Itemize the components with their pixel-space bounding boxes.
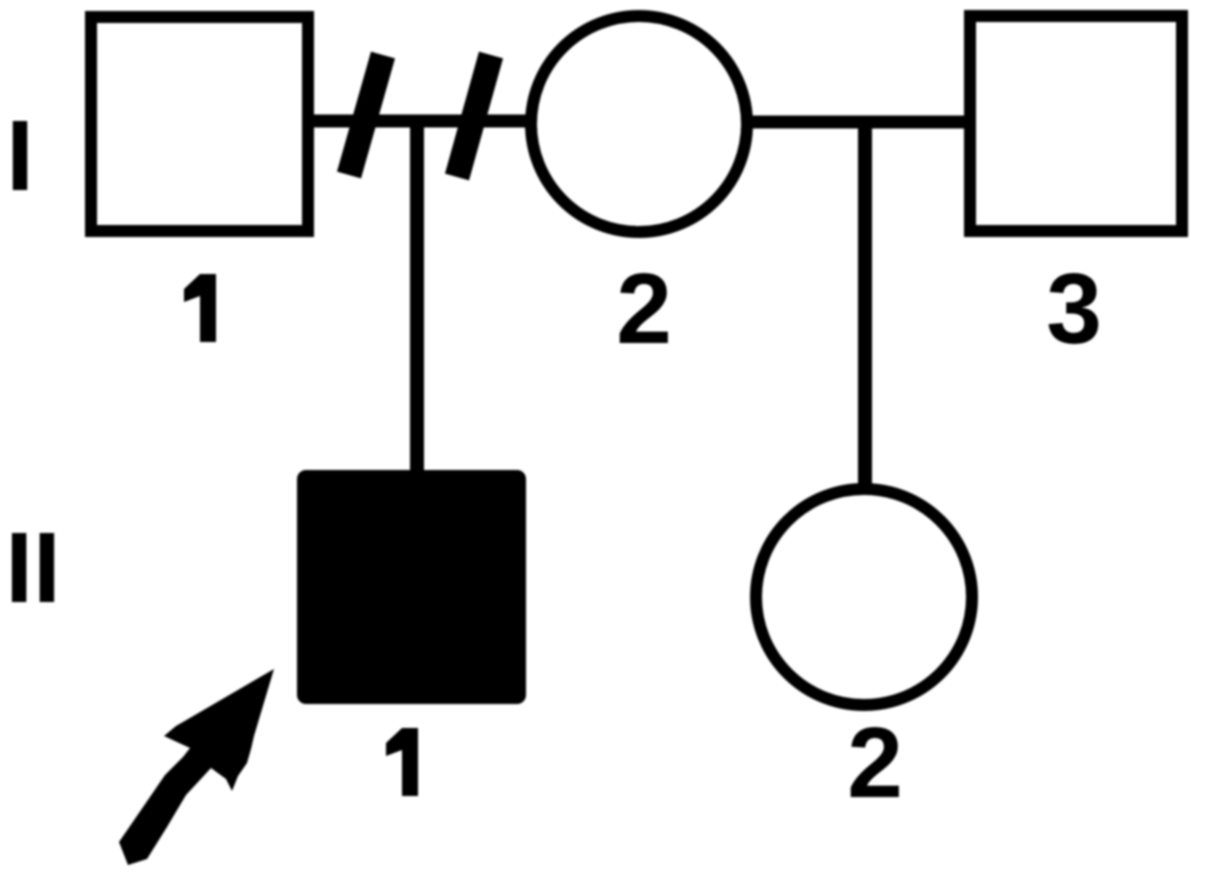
svg-text:I: I bbox=[6, 100, 34, 212]
svg-text:3: 3 bbox=[1046, 253, 1102, 365]
svg-text:2: 2 bbox=[616, 253, 672, 365]
svg-text:II: II bbox=[5, 512, 61, 624]
svg-text:2: 2 bbox=[847, 707, 903, 819]
